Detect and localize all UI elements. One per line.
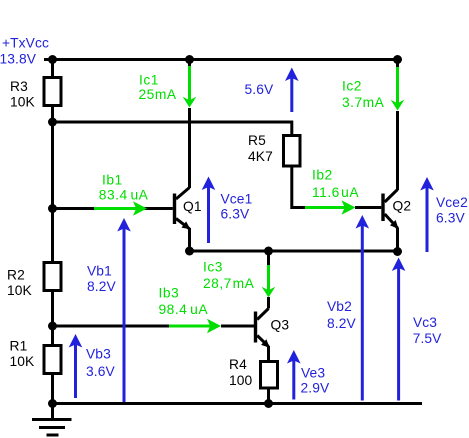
svg-text:Vb3: Vb3 <box>86 347 111 362</box>
svg-text:Q2: Q2 <box>393 199 412 214</box>
svg-text:10K: 10K <box>7 283 33 298</box>
svg-text:28,7mA: 28,7mA <box>203 276 255 291</box>
svg-text:R2: R2 <box>7 268 25 283</box>
svg-text:6.3V: 6.3V <box>436 211 465 226</box>
svg-text:6.3V: 6.3V <box>221 207 250 222</box>
svg-text:Ic2: Ic2 <box>342 79 362 94</box>
svg-text:7.5V: 7.5V <box>413 331 442 346</box>
svg-text:25mA: 25mA <box>139 87 177 102</box>
svg-text:3.7mA: 3.7mA <box>342 95 385 110</box>
svg-text:4K7: 4K7 <box>248 149 273 164</box>
svg-text:13.8V: 13.8V <box>0 52 37 67</box>
svg-text:Q1: Q1 <box>183 199 202 214</box>
svg-text:100: 100 <box>229 373 253 388</box>
svg-text:Q3: Q3 <box>271 318 290 333</box>
svg-text:Vb2: Vb2 <box>327 299 352 314</box>
svg-text:3.6V: 3.6V <box>86 364 115 379</box>
svg-text:R5: R5 <box>248 133 266 148</box>
svg-text:R1: R1 <box>10 339 28 354</box>
svg-text:Ib2: Ib2 <box>312 168 333 183</box>
svg-text:10K: 10K <box>10 95 36 110</box>
svg-text:8.2V: 8.2V <box>87 279 116 294</box>
svg-text:Vc3: Vc3 <box>413 315 437 330</box>
svg-text:2.9V: 2.9V <box>301 381 330 396</box>
svg-text:Ib1: Ib1 <box>102 173 123 188</box>
svg-text:Ve3: Ve3 <box>301 366 325 381</box>
svg-text:Ic1: Ic1 <box>139 73 159 88</box>
svg-text:5.6V: 5.6V <box>245 82 274 97</box>
svg-text:10K: 10K <box>10 354 36 369</box>
svg-text:Ib3: Ib3 <box>159 286 180 301</box>
svg-text:98.4uA: 98.4uA <box>159 302 209 317</box>
svg-text:R3: R3 <box>10 79 28 94</box>
svg-text:8.2V: 8.2V <box>327 316 356 331</box>
svg-text:Vce1: Vce1 <box>221 192 253 207</box>
svg-text:83.4uA: 83.4uA <box>99 188 149 203</box>
svg-text:Vb1: Vb1 <box>87 264 112 279</box>
svg-text:R4: R4 <box>229 357 247 372</box>
svg-text:Vce2: Vce2 <box>436 195 468 210</box>
svg-text:+TxVcc: +TxVcc <box>2 36 49 51</box>
svg-text:Ic3: Ic3 <box>203 260 223 275</box>
svg-text:11.6uA: 11.6uA <box>312 185 359 200</box>
